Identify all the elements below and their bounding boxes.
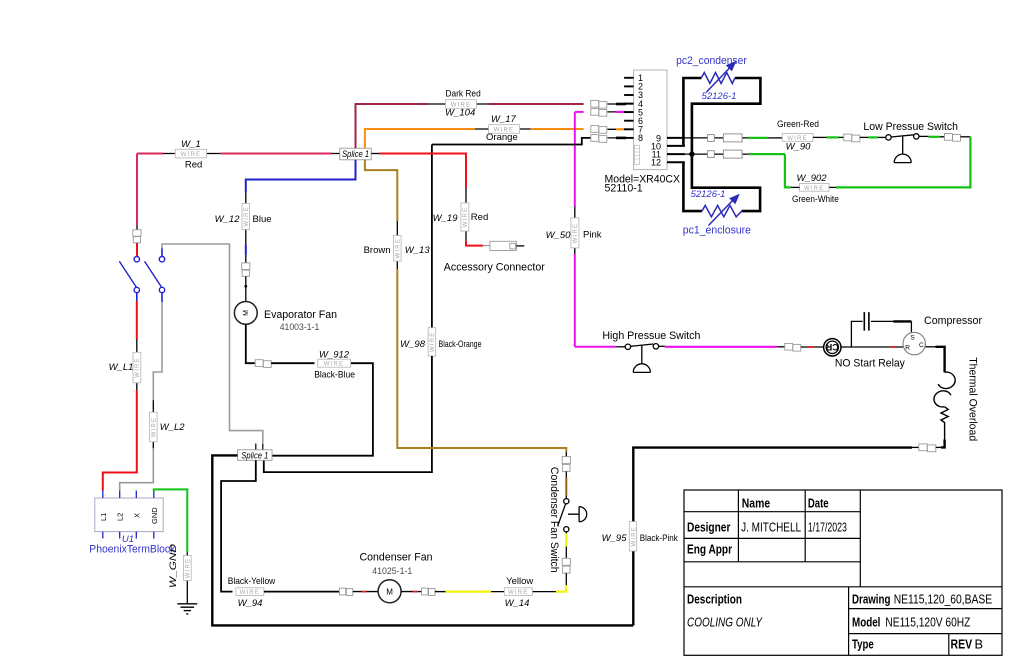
title block frame bbox=[684, 490, 1002, 655]
svg-text:WIRE: WIRE bbox=[430, 332, 436, 352]
pc1 rheostat symbol bbox=[702, 199, 742, 226]
svg-text:W_17: W_17 bbox=[491, 114, 517, 125]
svg-text:W_L2: W_L2 bbox=[160, 422, 186, 433]
motor evaporator fan bbox=[234, 302, 337, 333]
ground symbol bbox=[177, 604, 197, 614]
svg-text:High Pressue Switch: High Pressue Switch bbox=[602, 330, 700, 342]
svg-text:52126-1: 52126-1 bbox=[691, 189, 726, 200]
wire W_L1 bbox=[136, 301, 138, 339]
svg-text:pc2_condenser: pc2_condenser bbox=[676, 55, 747, 67]
svg-text:WIRE: WIRE bbox=[324, 362, 344, 368]
motor condenser fan bbox=[360, 551, 433, 602]
svg-text:M: M bbox=[243, 310, 250, 316]
power switch pole 1 bbox=[119, 257, 139, 293]
svg-text:Eng Appr: Eng Appr bbox=[687, 541, 732, 556]
controller pin stubs right bbox=[667, 138, 685, 162]
svg-text:NE115,120_60,BASE: NE115,120_60,BASE bbox=[894, 591, 993, 606]
terminal block U1 PhoenixTermBlock bbox=[95, 498, 163, 532]
svg-text:NE115,120V 60HZ: NE115,120V 60HZ bbox=[885, 615, 970, 630]
svg-text:W_1: W_1 bbox=[181, 139, 201, 150]
thermostat pc1_enclosure loop bbox=[683, 154, 760, 211]
controller pin stubs left bbox=[624, 78, 634, 138]
low pressure switch bbox=[886, 134, 919, 140]
svg-text:Designer: Designer bbox=[687, 520, 730, 535]
svg-text:Yellow: Yellow bbox=[506, 576, 533, 587]
wire W_94 Black-Yellow bbox=[221, 460, 256, 591]
svg-text:Green-White: Green-White bbox=[792, 194, 839, 205]
svg-text:C: C bbox=[919, 342, 924, 349]
condenser fan switch contacts bbox=[558, 499, 569, 532]
thermostat pc2_condenser loop bbox=[683, 78, 760, 154]
wire W_902 Green-White bbox=[836, 137, 970, 188]
svg-text:1/17/2023: 1/17/2023 bbox=[808, 520, 847, 535]
wire symbol W_104 bbox=[445, 89, 481, 119]
svg-text:NO Start Relay: NO Start Relay bbox=[835, 357, 905, 369]
accessory connector bbox=[490, 241, 517, 250]
svg-text:Drawing: Drawing bbox=[852, 591, 890, 606]
svg-text:52110-1: 52110-1 bbox=[605, 183, 643, 195]
connector pair pin8 bbox=[591, 135, 607, 143]
connector pair pin5 bbox=[591, 109, 607, 117]
controller XR40CX box bbox=[605, 70, 681, 195]
svg-text:W_90: W_90 bbox=[786, 142, 812, 153]
splice Splice 1 (upper) bbox=[340, 148, 371, 160]
svg-text:CR: CR bbox=[825, 342, 838, 352]
svg-text:Thermal Overload: Thermal Overload bbox=[967, 357, 979, 441]
wire splice to bottom rail bbox=[212, 455, 633, 625]
svg-text:Date: Date bbox=[808, 496, 829, 511]
wire W_GND green bbox=[154, 489, 188, 552]
svg-text:W_14: W_14 bbox=[505, 598, 530, 609]
junction dot bbox=[244, 285, 247, 288]
junction dot pin11 bbox=[689, 151, 694, 156]
svg-text:W_13: W_13 bbox=[405, 245, 431, 256]
svg-text:Black-Yellow: Black-Yellow bbox=[228, 576, 276, 587]
connector pair on red feed bbox=[133, 230, 141, 243]
svg-text:COOLING ONLY: COOLING ONLY bbox=[687, 615, 763, 630]
controller pin numbers 9-12 bbox=[651, 133, 661, 167]
wire symbol W_90 Green-Red bbox=[777, 119, 819, 152]
svg-text:W_912: W_912 bbox=[319, 350, 350, 361]
connector pair pin7 bbox=[591, 126, 607, 134]
svg-text:X: X bbox=[132, 513, 141, 518]
svg-text:L1: L1 bbox=[99, 513, 108, 521]
svg-text:GND: GND bbox=[150, 507, 159, 524]
wire pin11 row green bbox=[685, 153, 785, 155]
wire W_912 Black-Blue bbox=[246, 324, 255, 363]
condenser fan switch chain bbox=[565, 452, 567, 457]
wire W_95 Black-Pink bbox=[632, 551, 634, 625]
svg-text:WIRE: WIRE bbox=[631, 526, 637, 546]
svg-text:Black-Orange: Black-Orange bbox=[439, 339, 482, 350]
svg-text:Low Pressue Switch: Low Pressue Switch bbox=[863, 121, 958, 133]
wire symbol W_1 bbox=[175, 139, 206, 171]
connector pair pin4 bbox=[591, 100, 607, 108]
relay CR NO Start Relay bbox=[824, 339, 906, 370]
wire W_L2 gray bbox=[153, 302, 162, 400]
svg-text:41025-1-1: 41025-1-1 bbox=[372, 566, 412, 576]
svg-text:Name: Name bbox=[742, 496, 770, 511]
wire W_17 Orange bbox=[365, 129, 634, 148]
svg-text:S: S bbox=[910, 335, 915, 342]
svg-text:Orange: Orange bbox=[486, 132, 518, 143]
svg-text:Evaporator Fan: Evaporator Fan bbox=[264, 309, 337, 321]
svg-text:41003-1-1: 41003-1-1 bbox=[280, 322, 320, 332]
svg-text:Dark Red: Dark Red bbox=[446, 89, 481, 100]
svg-text:W_19: W_19 bbox=[433, 213, 459, 224]
svg-text:Model: Model bbox=[852, 615, 880, 630]
svg-text:Black-Pink: Black-Pink bbox=[640, 533, 678, 544]
wire pin8 black to W_98 bbox=[432, 138, 634, 328]
svg-text:WIRE: WIRE bbox=[181, 152, 201, 158]
svg-text:W_95: W_95 bbox=[602, 533, 628, 544]
svg-text:WIRE: WIRE bbox=[186, 558, 192, 578]
terminal pin labels L1 L2 X GND bbox=[99, 507, 159, 524]
svg-text:Red: Red bbox=[185, 159, 202, 170]
splice Splice 1 (lower) bbox=[238, 450, 273, 462]
power switch pole 2 bbox=[145, 257, 165, 293]
wire W_50 Pink vertical bbox=[574, 112, 576, 206]
svg-text:W_12: W_12 bbox=[215, 214, 241, 225]
wire W_14 Yellow bbox=[435, 591, 446, 593]
svg-text:W_104: W_104 bbox=[445, 108, 475, 119]
svg-text:Black-Blue: Black-Blue bbox=[314, 370, 355, 381]
svg-text:8: 8 bbox=[638, 133, 643, 143]
wire W_1 Red horizontal run bbox=[137, 153, 340, 155]
svg-text:WIRE: WIRE bbox=[508, 590, 528, 596]
svg-text:Condenser Fan Switch: Condenser Fan Switch bbox=[548, 467, 560, 573]
wire symbol W_98 Black-Orange bbox=[400, 328, 481, 356]
svg-text:L2: L2 bbox=[116, 513, 125, 521]
svg-text:WIRE: WIRE bbox=[573, 223, 579, 243]
svg-text:J. MITCHELL: J. MITCHELL bbox=[741, 520, 801, 535]
connector pair on evaporator feed bbox=[242, 263, 250, 276]
start capacitor bbox=[851, 312, 911, 347]
svg-text:W_50: W_50 bbox=[546, 230, 572, 241]
svg-text:Blue: Blue bbox=[253, 214, 272, 225]
svg-text:Brown: Brown bbox=[364, 245, 391, 256]
wire W_50 Pink top run to pin5 bbox=[575, 111, 634, 113]
svg-text:12: 12 bbox=[651, 157, 661, 167]
svg-text:W_GND: W_GND bbox=[168, 544, 179, 588]
svg-text:Type: Type bbox=[852, 636, 874, 651]
controller pin numbers 1-8 bbox=[638, 73, 643, 143]
svg-text:Splice 1: Splice 1 bbox=[241, 450, 268, 461]
wire W_12 Blue bbox=[246, 160, 356, 193]
svg-text:Pink: Pink bbox=[583, 230, 602, 241]
wire W_1 vertical drop to switch bbox=[136, 154, 138, 226]
svg-text:Accessory Connector: Accessory Connector bbox=[444, 262, 545, 274]
wire pin9 row to low pressure switch bbox=[685, 137, 782, 139]
svg-text:Condenser Fan: Condenser Fan bbox=[360, 551, 433, 563]
wire W_19 Red bbox=[371, 154, 490, 246]
svg-text:B: B bbox=[975, 636, 984, 651]
svg-text:pc1_enclosure: pc1_enclosure bbox=[683, 224, 751, 236]
svg-text:WIRE: WIRE bbox=[463, 207, 469, 227]
svg-text:REV: REV bbox=[951, 636, 973, 651]
svg-text:W_94: W_94 bbox=[238, 598, 263, 609]
svg-text:WIRE: WIRE bbox=[396, 238, 402, 258]
svg-text:Green-Red: Green-Red bbox=[777, 119, 819, 130]
compressor bbox=[903, 315, 982, 355]
svg-text:52126-1: 52126-1 bbox=[702, 91, 737, 102]
svg-text:W_98: W_98 bbox=[400, 339, 426, 350]
svg-text:WIRE: WIRE bbox=[240, 590, 260, 596]
svg-text:Splice 1: Splice 1 bbox=[342, 149, 369, 160]
svg-text:WIRE: WIRE bbox=[152, 417, 158, 437]
svg-text:Compressor: Compressor bbox=[924, 315, 982, 327]
high pressure switch row bbox=[575, 346, 617, 348]
condenser fan switch actuator dome bbox=[568, 507, 587, 522]
svg-text:Red: Red bbox=[471, 212, 488, 223]
svg-text:Description: Description bbox=[687, 591, 742, 606]
svg-text:WIRE: WIRE bbox=[135, 357, 141, 377]
wire W_104 Dark Red bbox=[356, 104, 634, 148]
svg-text:WIRE: WIRE bbox=[244, 206, 250, 226]
svg-text:M: M bbox=[386, 587, 393, 596]
svg-text:PhoenixTermBlock: PhoenixTermBlock bbox=[89, 543, 175, 555]
wire W_13 Brown bbox=[365, 160, 397, 221]
svg-text:W_L1: W_L1 bbox=[109, 362, 134, 373]
thermal overload element bbox=[941, 407, 948, 440]
gray wire from switch pole 2 top to splice 1 (lower) bbox=[162, 244, 263, 444]
wire symbol W_17 bbox=[486, 114, 520, 143]
svg-text:WIRE: WIRE bbox=[804, 186, 824, 192]
pc2 rheostat symbol bbox=[701, 67, 735, 93]
svg-text:R: R bbox=[905, 344, 910, 351]
svg-text:W_902: W_902 bbox=[796, 173, 827, 184]
